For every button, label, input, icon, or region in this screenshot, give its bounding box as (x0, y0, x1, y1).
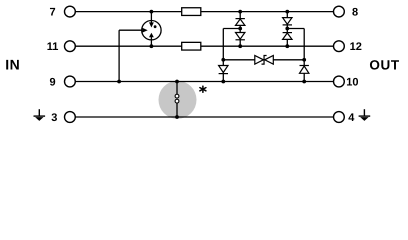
svg-text:12: 12 (350, 41, 362, 53)
svg-text:10: 10 (346, 76, 358, 88)
svg-text:7: 7 (50, 7, 56, 19)
svg-text:OUT: OUT (369, 57, 399, 72)
svg-text:4: 4 (348, 112, 355, 124)
svg-text:11: 11 (47, 41, 59, 53)
svg-text:9: 9 (50, 76, 56, 88)
svg-text:3: 3 (51, 112, 57, 124)
svg-text:8: 8 (352, 7, 358, 19)
svg-text:IN: IN (5, 56, 20, 72)
